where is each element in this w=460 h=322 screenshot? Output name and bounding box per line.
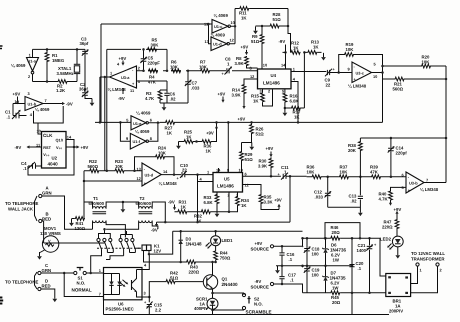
- pin 4 U4 wire down to switch line: [291, 77, 298, 123]
- pin 11 and -9V supply: [118, 88, 135, 101]
- resistor R39 47K: [370, 165, 381, 179]
- bottom rail: [104, 314, 390, 316]
- svg-text:36pf: 36pf: [80, 41, 89, 46]
- ground below C2: [90, 99, 95, 107]
- svg-text:1K: 1K: [186, 134, 192, 139]
- resistor R30 3.9K: [258, 157, 273, 176]
- capacitor C14 220pF: [388, 138, 408, 177]
- resistor R5 30K: [147, 38, 159, 52]
- wire clock into U2 pin 10: [34, 123, 42, 134]
- ground on R26 leg: [249, 143, 254, 151]
- wire left vertical x=84 down to R41/T1: [83, 171, 85, 219]
- resistor R32 1K: [194, 210, 211, 224]
- inverter U1-f: [130, 133, 148, 149]
- svg-text:3.3K: 3.3K: [264, 199, 274, 204]
- wire -9V line y=222.1: [157, 221, 291, 223]
- svg-text:GRN: GRN: [42, 268, 52, 273]
- terminal +9V SOURCE: [251, 241, 274, 252]
- ground at C13: [358, 209, 363, 217]
- svg-text:51Ω: 51Ω: [256, 131, 265, 136]
- pin 4 U5 wire: [198, 177, 214, 182]
- svg-text:30K: 30K: [151, 42, 160, 47]
- long wire y=24 to U1-c input: [101, 23, 212, 25]
- svg-text:U5: U5: [224, 177, 230, 182]
- svg-text:U2: U2: [52, 156, 58, 161]
- wire feedback vertical: [106, 49, 108, 170]
- wire U5 pin 14 stub up: [218, 168, 220, 173]
- capacitor C21 1400: [357, 237, 378, 294]
- +9V supply arrow at U1-b: [13, 91, 21, 104]
- svg-text:1K: 1K: [313, 44, 319, 49]
- svg-text:LM1496: LM1496: [263, 81, 280, 86]
- label TO TELEPHONE WALL JACK: [5, 196, 38, 221]
- svg-text:3.9K: 3.9K: [235, 61, 245, 66]
- terminal B RED: [39, 212, 51, 223]
- capacitor C8 1 (series, polarized): [222, 57, 233, 76]
- line R20 y=66: [383, 65, 447, 67]
- ground between transformers: [121, 201, 126, 213]
- svg-text:20Ω: 20Ω: [332, 300, 341, 305]
- +9V at U2 Vdd pin 16: [66, 145, 88, 150]
- svg-text:.1: .1: [290, 278, 294, 283]
- svg-text:+9V: +9V: [255, 241, 263, 246]
- pin 5 wire to R40: [391, 187, 407, 190]
- resistor R19 10K: [344, 42, 354, 56]
- resistor R26 51ohm: [242, 124, 265, 143]
- +9V at bias pair: [206, 125, 218, 135]
- svg-text:1.2K: 1.2K: [56, 88, 66, 93]
- wire U1-a input up to feedback rail: [32, 49, 34, 57]
- svg-text:51Ω: 51Ω: [251, 39, 260, 44]
- relay coil K1 12V: [136, 243, 161, 253]
- op-amp U3-d: [142, 163, 161, 186]
- svg-text:220Ω: 220Ω: [189, 269, 200, 274]
- resistor R36 10K: [307, 165, 322, 179]
- wire Q10 output loop around bottom of U2: [28, 140, 74, 176]
- wire down to U5 pin 8: [227, 122, 229, 172]
- svg-text:3.9K: 3.9K: [232, 92, 242, 97]
- capacitor C17 .1: [279, 266, 296, 284]
- resistor R27 1K: [165, 121, 176, 136]
- scan artifacts left edge: [0, 46, 3, 49]
- svg-text:N.O.: N.O.: [77, 281, 86, 286]
- svg-text:560Ω: 560Ω: [88, 164, 99, 169]
- svg-text:U3-d: U3-d: [145, 173, 154, 178]
- capacitor C20 .1: [349, 237, 364, 294]
- svg-text:36pf: 36pf: [79, 87, 88, 92]
- wire output down to buffers: [99, 77, 101, 122]
- wire buffer input tie: [209, 24, 212, 44]
- wire U3-a output: [100, 76, 110, 78]
- svg-text:200PIV: 200PIV: [389, 309, 403, 314]
- crystal XTAL1 3.58MHz: [57, 49, 81, 81]
- svg-text:V₃₃: V₃₃: [43, 152, 49, 157]
- resistor R14 3.9K to +9V: [232, 84, 246, 122]
- IC U2 4040 box: [42, 132, 67, 169]
- contact lower wires: [91, 250, 136, 274]
- svg-text:1W: 1W: [333, 258, 340, 263]
- svg-text:RED: RED: [42, 284, 51, 289]
- supply top rail y=238.2: [303, 237, 381, 239]
- wire terminal B to MOV: [42, 221, 44, 243]
- wire C10 to U5 pin 1: [185, 174, 213, 176]
- wire U6 pin 5 to node: [142, 296, 149, 298]
- inverter U1-d: [211, 37, 229, 51]
- long vertical from top line down left side: [100, 24, 102, 122]
- supply left vertical: [302, 265, 304, 267]
- svg-text:SOURCE: SOURCE: [251, 247, 270, 252]
- transistor Q1 2N4400: [203, 275, 238, 289]
- node buffer input: [207, 23, 210, 26]
- wire SCR cathode to bottom rail: [212, 305, 214, 314]
- capacitor C19 100: [302, 264, 320, 293]
- resistor R42 51ohm: [166, 271, 204, 284]
- svg-text:1K: 1K: [181, 204, 187, 209]
- capacitor C11 1 series polarized: [278, 165, 290, 180]
- svg-text:1K: 1K: [294, 114, 300, 119]
- terminal C GRN: [38, 263, 51, 275]
- svg-text:U3-b: U3-b: [409, 181, 418, 186]
- feedback line y=49.4: [107, 48, 167, 50]
- svg-text:10K: 10K: [115, 164, 124, 169]
- R46 bypass loop: [325, 223, 360, 239]
- svg-text:+9V: +9V: [218, 92, 226, 97]
- svg-text:20Ω: 20Ω: [332, 230, 341, 235]
- resistor R45 20ohm: [330, 291, 341, 305]
- wire U6 bottom stub: [103, 300, 105, 315]
- svg-text:LED2: LED2: [380, 237, 392, 242]
- svg-text:¼ 4069: ¼ 4069: [11, 63, 26, 68]
- ground at MOV1: [37, 250, 44, 260]
- resistor R16 6.8K on pin 5: [282, 89, 299, 109]
- resistor R8 3.9K from +9V to pin 8: [235, 45, 258, 69]
- terminal A GRN: [39, 186, 52, 198]
- contact terminals set 1: [97, 238, 112, 241]
- wire C to S1 and U6: [41, 272, 104, 274]
- svg-text:NORMAL: NORMAL: [72, 288, 92, 293]
- svg-text:V₅₅: V₅₅: [56, 145, 62, 150]
- node R38/C13: [359, 176, 362, 179]
- resistor R13 1K: [307, 40, 319, 55]
- svg-text:10: 10: [373, 74, 377, 79]
- svg-text:12V: 12V: [154, 248, 162, 253]
- wire C9 to U3-c input: [330, 72, 352, 74]
- resistor R20 10K: [421, 55, 431, 68]
- svg-text:LM1496: LM1496: [217, 184, 234, 189]
- svg-text:130Ω: 130Ω: [75, 226, 86, 231]
- wire K1 second lead to R43 line: [144, 251, 216, 263]
- capacitor C16 .1: [279, 246, 295, 265]
- capacitor C9 22 series polarized: [325, 67, 336, 88]
- svg-text:10K: 10K: [346, 47, 355, 52]
- svg-text:+9V: +9V: [241, 45, 249, 50]
- wire -9V source line: [274, 284, 303, 293]
- resistor R7 10K: [199, 60, 210, 73]
- resistor R46 20ohm: [330, 225, 340, 240]
- svg-text:-9V: -9V: [255, 279, 262, 284]
- mechanical linkage dashed: [97, 247, 141, 249]
- wire U1-b output to -9V arrow: [43, 101, 73, 106]
- svg-text:U4: U4: [271, 73, 277, 78]
- wire R3/C6 bottom tie + ground: [160, 102, 188, 104]
- svg-text:¼ 4069: ¼ 4069: [211, 33, 226, 38]
- feedback loop R19: [339, 55, 383, 80]
- ground after R13: [321, 53, 326, 61]
- wire R22/R23 line y=170.7: [84, 170, 142, 172]
- inverter U1-e: [131, 116, 148, 130]
- ground at R16/R17: [283, 109, 288, 117]
- resistor R36a 1K (bias pair): [197, 122, 217, 153]
- svg-text:3.9K: 3.9K: [258, 163, 268, 168]
- svg-text:U1-a: U1-a: [28, 59, 37, 64]
- svg-text:TO TELEPHONE: TO TELEPHONE: [5, 280, 38, 285]
- svg-text:+9V: +9V: [81, 145, 89, 150]
- capacitor C18 100: [302, 237, 320, 267]
- svg-text:+9V: +9V: [266, 146, 274, 151]
- line R21 y=79: [383, 78, 447, 80]
- node R28 right: [287, 25, 290, 28]
- svg-text:6.8K: 6.8K: [204, 200, 214, 205]
- resistor R24 10K: [155, 146, 167, 159]
- svg-text:1K: 1K: [293, 45, 299, 50]
- svg-text:U1-b: U1-b: [28, 101, 37, 106]
- svg-text:2.2: 2.2: [155, 308, 162, 313]
- svg-text:.02: .02: [170, 96, 177, 101]
- op-amp U3-b: [406, 172, 424, 193]
- resistor R33 6.8K on pin 5: [204, 192, 219, 210]
- wire C12/C13 bottom tie: [328, 206, 361, 208]
- wire pin7 loop: [64, 273, 103, 297]
- svg-text:220pF: 220pF: [148, 60, 161, 65]
- svg-text:51Ω: 51Ω: [170, 275, 179, 280]
- svg-text:CLK: CLK: [43, 133, 53, 138]
- svg-text:U1-d: U1-d: [213, 42, 222, 47]
- inverter U1-c: [212, 20, 230, 34]
- svg-text:.02: .02: [351, 198, 358, 203]
- svg-text:100: 100: [312, 272, 320, 277]
- wire U3-b output to right bus: [424, 182, 446, 184]
- svg-text:1N4148: 1N4148: [186, 242, 203, 247]
- switch S2 N.O. SCRAMBLE: [213, 293, 272, 315]
- svg-text:SOURCE: SOURCE: [251, 285, 270, 290]
- svg-text:10K: 10K: [170, 64, 179, 69]
- svg-text:10K: 10K: [340, 169, 349, 174]
- wire D to ground: [41, 289, 57, 302]
- node C12: [326, 176, 329, 179]
- resistor R11 1K: [235, 7, 288, 21]
- svg-text:Q1: Q1: [222, 277, 228, 282]
- svg-text:U3-a: U3-a: [121, 75, 130, 80]
- transformer T1 600:600: [89, 196, 107, 223]
- wire output to R22 junction (parallel drop): [104, 77, 106, 171]
- svg-text:1K: 1K: [241, 203, 247, 208]
- svg-text:10K: 10K: [307, 169, 316, 174]
- R47 220ohm LED2 chain: [382, 211, 399, 236]
- wire U5 output pin 6: [243, 175, 281, 177]
- svg-text:400PIV: 400PIV: [194, 306, 208, 311]
- svg-text:GRN: GRN: [42, 191, 52, 196]
- wire U1-b input: [13, 103, 25, 105]
- resistor R28 51ohm: [270, 12, 282, 28]
- svg-text:+9V: +9V: [119, 56, 127, 61]
- contact terminals set 2: [119, 238, 134, 241]
- svg-text:1K: 1K: [241, 16, 247, 21]
- resistor R31 1K: [177, 200, 187, 214]
- capacitor C15 2.2: [144, 297, 162, 315]
- feedback loop R24: [135, 157, 175, 175]
- node crystal top: [76, 48, 79, 51]
- svg-text:220Ω: 220Ω: [382, 224, 393, 229]
- wire pin12 line y=181: [84, 180, 142, 182]
- wire xfmr terminal 1 to BR1: [411, 266, 418, 283]
- resistor R35 3.3K: [259, 194, 279, 210]
- svg-text:20K: 20K: [348, 148, 357, 153]
- ground at R41: [69, 219, 74, 227]
- capacitor C1 .1: [5, 104, 27, 120]
- svg-text:4.7K: 4.7K: [379, 196, 389, 201]
- svg-text:7: 7: [45, 98, 47, 103]
- svg-text:¼ LM348: ¼ LM348: [420, 187, 439, 192]
- wire C20 node down to bottom rail: [351, 293, 353, 315]
- wire K1 to +rail jog: [149, 231, 173, 254]
- -9V into RST pin 11: [15, 145, 42, 150]
- node pin5/R16 bottom: [284, 107, 287, 110]
- IC U4 LM1496 box: [258, 69, 292, 89]
- wire U3-d output: [161, 174, 181, 176]
- svg-text:TO 12VAC WALL: TO 12VAC WALL: [411, 251, 445, 256]
- op-amp U3-c: [352, 62, 372, 83]
- svg-text:-9V: -9V: [168, 200, 175, 205]
- svg-text:7: 7: [99, 292, 101, 297]
- ground at R25: [176, 142, 181, 150]
- node pin14/R12: [284, 51, 287, 54]
- svg-text:¼ 4069: ¼ 4069: [136, 110, 151, 115]
- svg-text:1K: 1K: [167, 130, 173, 135]
- capacitor C4 .1: [21, 161, 42, 171]
- wire -9V bias drop x=290: [289, 176, 291, 222]
- resistor R41 130ohm: [72, 217, 86, 231]
- switch S1 N.O. pushbutton: [72, 268, 92, 293]
- T1 winding leads: [84, 202, 125, 238]
- svg-text:4040: 4040: [48, 162, 59, 167]
- node R1 top: [46, 48, 49, 51]
- svg-text:10K: 10K: [422, 59, 431, 64]
- svg-text:+9V: +9V: [13, 91, 21, 96]
- supply bottom rail y=292.8: [303, 292, 386, 294]
- transformer terminals: [416, 263, 443, 273]
- svg-text:U1-e: U1-e: [133, 121, 142, 126]
- wire down to U1-f input: [120, 122, 130, 141]
- capacitor C6 .02: [164, 90, 176, 103]
- svg-text:10: 10: [37, 128, 41, 133]
- zener D7 1N4735: [322, 266, 346, 293]
- pin 14 wire and label: [281, 52, 286, 69]
- svg-text:TRANSFORMER: TRANSFORMER: [411, 257, 445, 262]
- svg-text:51Ω: 51Ω: [273, 17, 282, 22]
- node R19 left: [337, 71, 340, 74]
- resistor R22 560ohm: [88, 159, 100, 173]
- capacitor C3 36pF (trimmer): [80, 37, 89, 93]
- wire feedback down to inverting input line: [166, 49, 168, 70]
- resistor R12 1K: [291, 41, 301, 55]
- pin 12 wire R14: [244, 74, 258, 84]
- node bias drop x=197.5: [196, 173, 199, 176]
- wire +9V source line: [274, 238, 303, 246]
- R12 line: [283, 51, 322, 53]
- svg-text:WALL JACK: WALL JACK: [8, 207, 34, 212]
- bridge rectifier BR1: [386, 274, 411, 314]
- svg-text:+9V: +9V: [394, 207, 402, 212]
- terminal -9V SOURCE: [251, 279, 274, 290]
- resistor R29 51ohm: [240, 143, 254, 173]
- resistor R34 1K on pin 3: [229, 192, 249, 212]
- svg-text:U1-c: U1-c: [214, 24, 223, 29]
- svg-text:750Ω: 750Ω: [220, 255, 231, 260]
- svg-text:¼ 4069: ¼ 4069: [214, 13, 229, 18]
- resistor R43 220ohm: [186, 260, 200, 274]
- resistor R23 10K: [115, 159, 125, 173]
- svg-text:¼ 4069: ¼ 4069: [35, 107, 50, 112]
- svg-text:+9V: +9V: [206, 131, 214, 136]
- svg-text:U3-c: U3-c: [356, 71, 365, 76]
- svg-text:22: 22: [326, 82, 331, 87]
- svg-text:U1-f: U1-f: [133, 139, 141, 144]
- resistor R37 10K: [339, 165, 349, 179]
- transformer T2 600:600: [136, 196, 153, 223]
- wire U1-a output to bottom rail: [32, 74, 34, 82]
- svg-text:560Ω: 560Ω: [393, 86, 404, 91]
- resistor R21 560ohm: [393, 77, 405, 91]
- label TO 12VAC WALL TRANSFORMER: [411, 251, 445, 262]
- svg-text:3.58MHz: 3.58MHz: [57, 71, 74, 76]
- capacitor C5 220pF (across R5): [140, 49, 160, 70]
- resistor R1: [45, 49, 65, 81]
- wire Q1 collector up to R43 line: [212, 262, 214, 276]
- -9V arrow feeding line y=222.1: [151, 222, 158, 232]
- -9V feed to R12 line: [279, 39, 286, 52]
- svg-text:PS2506-1NEC: PS2506-1NEC: [106, 307, 134, 312]
- ground stub at carrier line: [253, 27, 258, 35]
- resistor R9 51ohm: [251, 26, 264, 69]
- svg-text:.033: .033: [191, 85, 200, 90]
- inverter U1-b (1/4 4069): [25, 97, 43, 111]
- ground under LED2: [395, 247, 400, 259]
- wire U3-c output: [372, 72, 383, 74]
- diode D3 1N4148: [179, 230, 203, 263]
- svg-text:TO TELEPHONE: TO TELEPHONE: [5, 201, 38, 206]
- SCR1 1A 400PIV: [194, 297, 218, 312]
- svg-text:-9V: -9V: [15, 145, 22, 150]
- wire C14 line y=138: [360, 137, 446, 139]
- node R9 top: [261, 25, 264, 28]
- svg-text:1K: 1K: [253, 98, 259, 103]
- node Vdd wire crossing: [73, 146, 76, 149]
- svg-text:22: 22: [182, 167, 187, 172]
- capacitor C2 36pF (trimmer): [79, 82, 92, 99]
- resistor R3 4.7K: [145, 90, 162, 103]
- svg-text:-9V: -9V: [279, 39, 286, 44]
- svg-text:10: 10: [263, 63, 267, 68]
- zener D6 1N4736: [322, 237, 346, 267]
- pin 1 U4 output wire to C9: [291, 67, 326, 72]
- capacitor C7 .033: [185, 71, 200, 103]
- resistor R6 10K: [170, 60, 181, 73]
- resistor R2 1.2K: [56, 80, 68, 93]
- svg-text:47K: 47K: [148, 79, 157, 84]
- wire U1-b pin4 loop: [34, 106, 64, 123]
- carrier null line y=26: [256, 25, 289, 27]
- ground at R33: [215, 210, 220, 218]
